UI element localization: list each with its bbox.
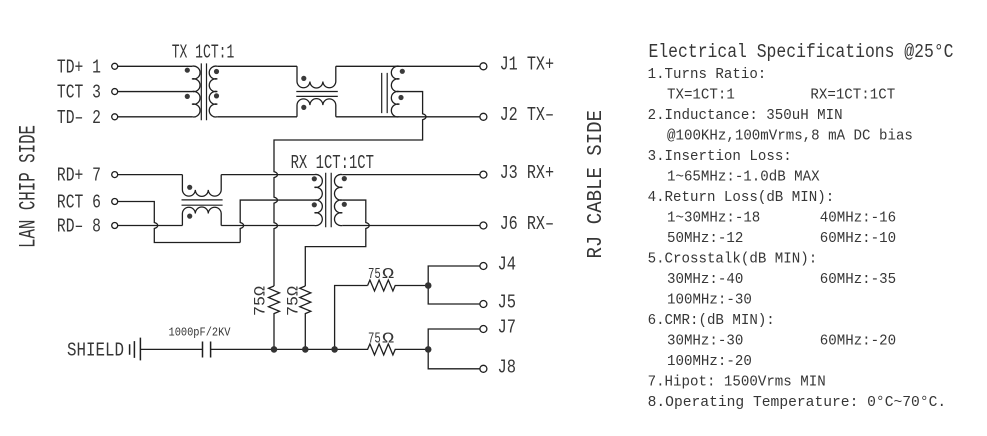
svg-text:J7: J7 — [498, 317, 517, 339]
transformer T1 core — [201, 63, 206, 120]
svg-text:Electrical Specifications @25°: Electrical Specifications @25°C — [649, 41, 954, 63]
svg-text:1~30MHz:-18: 1~30MHz:-18 — [667, 210, 760, 227]
svg-text:TD+ 1: TD+ 1 — [57, 56, 101, 78]
transformer T1 primary winding — [192, 66, 200, 117]
pin RD- 8 — [57, 216, 118, 238]
svg-text:LAN CHIP SIDE: LAN CHIP SIDE — [16, 125, 42, 248]
transformer T3 polarity dots — [312, 176, 347, 207]
svg-text:1.Turns Ratio:: 1.Turns Ratio: — [648, 66, 767, 83]
svg-text:75Ω: 75Ω — [252, 286, 270, 316]
wire T3 secondary top to J3 — [342, 174, 480, 176]
autotransformer T2 core — [382, 73, 388, 113]
svg-text:RD– 8: RD– 8 — [57, 216, 101, 238]
wire CMC1 top to J1 (through T2 top) — [336, 65, 480, 67]
pin J7 — [480, 317, 516, 339]
resistor R4 value label 75 Ω — [368, 330, 394, 347]
wire T3 secondary center tap to R2 (hops over J6 wire) — [305, 200, 369, 286]
pin RCT 6 — [57, 192, 118, 214]
pin J8 — [480, 356, 516, 378]
transformer T3 label RX 1CT:1CT — [291, 152, 374, 174]
svg-text:5.Crosstalk(dB MIN):: 5.Crosstalk(dB MIN): — [648, 251, 818, 268]
pin J3 RX+ — [480, 162, 554, 184]
svg-text:@100KHz,100mVrms,8 mA DC bias: @100KHz,100mVrms,8 mA DC bias — [667, 128, 913, 145]
svg-text:J2 TX–: J2 TX– — [500, 104, 554, 126]
transformer T1 polarity dots — [185, 68, 219, 99]
svg-text:1~65MHz:-1.0dB MAX: 1~65MHz:-1.0dB MAX — [667, 169, 820, 186]
svg-text:75: 75 — [368, 330, 381, 347]
svg-text:J1 TX+: J1 TX+ — [500, 54, 554, 76]
svg-text:J5: J5 — [498, 292, 517, 314]
resistor R1 value label 75Ω rotated — [252, 286, 270, 316]
shield terminal symbol — [130, 338, 141, 361]
svg-text:100MHz:-20: 100MHz:-20 — [667, 353, 752, 370]
svg-text:RCT 6: RCT 6 — [57, 192, 101, 214]
pin J5 — [480, 292, 516, 314]
spec text title — [648, 41, 954, 411]
svg-text:J4: J4 — [498, 254, 517, 276]
autotransformer T2 winding — [391, 66, 399, 117]
junction dot R2/bus — [302, 346, 309, 353]
svg-text:TCT 3: TCT 3 — [57, 82, 101, 104]
svg-text:75: 75 — [368, 266, 381, 283]
svg-text:8.Operating Temperature: 0°C~7: 8.Operating Temperature: 0°C~70°C. — [648, 394, 947, 411]
svg-text:30MHz:-40: 30MHz:-40 — [667, 271, 743, 288]
junction dot J7/J8 node — [425, 346, 432, 353]
junction dot R3-branch/bus — [331, 346, 338, 353]
wire CMC1 bottom to J2 (through T2 bottom) — [336, 116, 480, 118]
resistor R3 75 ohm horizontal — [368, 280, 429, 291]
svg-text:60MHz:-10: 60MHz:-10 — [820, 230, 896, 247]
pin J2 TX- — [480, 104, 554, 126]
svg-text:30MHz:-30: 30MHz:-30 — [667, 333, 743, 350]
wire T2 center tap to R1 (hops over J2, RD+, RCT-tap, RD- wires) — [274, 92, 426, 286]
wire TCT to T1 center tap — [118, 91, 192, 93]
svg-text:40MHz:-16: 40MHz:-16 — [820, 210, 896, 227]
resistor R3 value label 75 Ω — [368, 266, 394, 283]
transformer T3 primary winding — [315, 174, 323, 225]
capacitor C1 value label 1000pF/2KV — [169, 325, 232, 339]
resistor R1 75 ohm vertical — [269, 286, 280, 349]
junction dot R1/bus — [271, 346, 278, 353]
pin J4 — [480, 254, 516, 276]
wire node to J8 — [428, 349, 480, 368]
svg-text:RX=1CT:1CT: RX=1CT:1CT — [810, 87, 895, 104]
wire RCT detour to T3 left center tap (hops over RD- wire) — [118, 202, 240, 243]
wire CMC2 top to T3 — [221, 174, 314, 176]
common-mode choke CMC1 top winding — [297, 66, 336, 88]
svg-text:RJ CABLE SIDE: RJ CABLE SIDE — [584, 110, 608, 259]
common-mode choke CMC1 core — [296, 92, 338, 97]
common-mode choke CMC2 top winding — [182, 175, 221, 197]
resistor R2 value label 75Ω rotated — [285, 286, 303, 316]
pin J6 RX- — [480, 213, 554, 235]
svg-text:RX 1CT:1CT: RX 1CT:1CT — [291, 152, 374, 174]
pin J1 TX+ — [480, 54, 554, 76]
wire node to J7 — [428, 329, 480, 349]
wire T1 secondary top to CMC1 — [217, 65, 297, 67]
wire RD- to CMC2 — [118, 225, 182, 227]
wire T3 secondary bottom to J6 — [342, 225, 480, 227]
svg-text:60MHz:-20: 60MHz:-20 — [820, 333, 896, 350]
svg-text:3.Insertion Loss:: 3.Insertion Loss: — [648, 148, 792, 165]
svg-text:Ω: Ω — [382, 266, 394, 283]
common-mode choke CMC1 polarity dots — [301, 76, 306, 110]
svg-text:1000pF/2KV: 1000pF/2KV — [169, 325, 232, 339]
svg-text:75Ω: 75Ω — [285, 286, 303, 316]
svg-text:TX 1CT:1: TX 1CT:1 — [172, 41, 235, 63]
pin TD+ 1 — [57, 56, 118, 78]
svg-text:6.CMR:(dB MIN):: 6.CMR:(dB MIN): — [648, 312, 775, 329]
wire node to J4 — [428, 266, 480, 286]
branch wire bus to R3 — [335, 286, 368, 350]
wire RD+ to CMC2 — [118, 174, 182, 176]
svg-text:50MHz:-12: 50MHz:-12 — [667, 230, 743, 247]
autotransformer T2 polarity dots — [398, 69, 405, 100]
wire TD+ to T1 — [118, 65, 192, 67]
wire T1 secondary bottom to CMC1 — [217, 116, 297, 118]
svg-text:RD+ 7: RD+ 7 — [57, 165, 101, 187]
svg-text:4.Return Loss(dB MIN):: 4.Return Loss(dB MIN): — [648, 189, 835, 206]
transformer T3 secondary winding — [334, 174, 342, 225]
side label LAN CHIP SIDE — [16, 125, 42, 248]
svg-text:J6 RX–: J6 RX– — [500, 213, 554, 235]
common-mode choke CMC2 bottom winding — [182, 207, 221, 225]
common-mode choke CMC2 polarity dots — [187, 185, 192, 219]
common-mode choke CMC2 core — [182, 200, 223, 205]
capacitor C1 plates — [203, 342, 211, 358]
pin TD- 2 — [57, 107, 118, 129]
svg-text:60MHz:-35: 60MHz:-35 — [820, 271, 896, 288]
wire node to J5 — [428, 286, 480, 305]
svg-text:J3 RX+: J3 RX+ — [500, 162, 554, 184]
wire shield to C1 — [141, 348, 203, 350]
side label RJ CABLE SIDE — [584, 110, 608, 259]
svg-text:7.Hipot: 1500Vrms MIN: 7.Hipot: 1500Vrms MIN — [648, 374, 826, 391]
wire CMC2 bottom to T3 — [221, 225, 314, 227]
termination bus wire with resistor R4 — [211, 344, 429, 355]
transformer T1 secondary winding — [209, 66, 217, 117]
svg-text:J8: J8 — [498, 356, 517, 378]
wire TD- to T1 — [118, 116, 192, 118]
svg-text:TD– 2: TD– 2 — [57, 107, 101, 129]
junction dot J4/J5 node — [425, 282, 432, 289]
svg-text:2.Inductance: 350uH MIN: 2.Inductance: 350uH MIN — [648, 107, 843, 124]
svg-text:SHIELD: SHIELD — [67, 340, 124, 362]
svg-text:100MHz:-30: 100MHz:-30 — [667, 292, 752, 309]
pin RD+ 7 — [57, 165, 118, 187]
transformer T3 core — [326, 173, 332, 228]
pin TCT 3 — [57, 82, 118, 104]
transformer T1 label TX 1CT:1 — [172, 41, 235, 63]
svg-text:TX=1CT:1: TX=1CT:1 — [667, 87, 735, 104]
resistor R2 75 ohm vertical — [300, 286, 311, 349]
common-mode choke CMC1 bottom winding — [297, 99, 336, 117]
shield label — [67, 340, 124, 362]
svg-text:Ω: Ω — [382, 330, 394, 347]
